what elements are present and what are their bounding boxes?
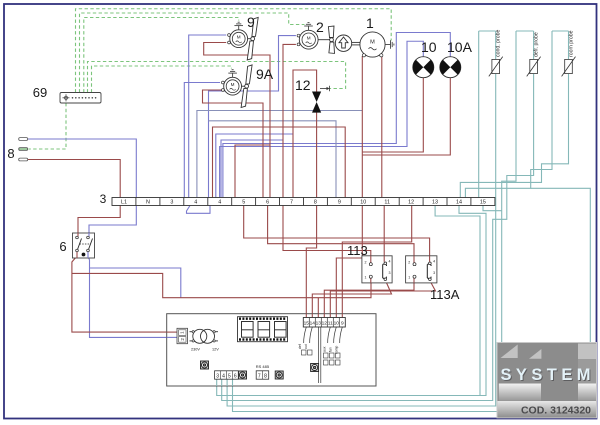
svg-text:out: out — [304, 344, 308, 349]
svg-text:def: def — [298, 344, 302, 349]
svg-text:3: 3 — [170, 200, 173, 206]
svg-text:4: 4 — [218, 200, 221, 206]
wire motor U1 to terminal 11 — [381, 56, 383, 198]
valve 12 (solenoid) — [295, 77, 330, 113]
wire terminal L1 to switch 6 — [78, 206, 120, 235]
wire stub switch out brown — [76, 252, 78, 258]
wire connector 8 to terminal N — [28, 139, 137, 198]
pin motor 2 — [297, 43, 300, 46]
wire stub conn12 brown — [167, 331, 179, 333]
svg-text:6: 6 — [266, 200, 269, 206]
control board U2 — [167, 314, 376, 386]
relay 113 — [347, 243, 392, 283]
wire defr probe to board pin 6 — [233, 31, 517, 412]
pin motor 9A — [222, 81, 225, 84]
svg-text:1: 1 — [366, 15, 374, 31]
wire stub switch in blue — [88, 233, 90, 236]
wire room probe to terminal 14 — [465, 31, 552, 198]
svg-text:9: 9 — [338, 200, 341, 206]
svg-text:4: 4 — [433, 260, 435, 264]
pin motor 1 — [362, 54, 365, 57]
wire stubs board teal — [217, 379, 233, 386]
motor U1 compressor — [360, 15, 394, 57]
wire valve 12 to terminal 8 — [316, 112, 318, 198]
svg-text:12: 12 — [322, 321, 328, 327]
svg-text:14: 14 — [310, 321, 316, 327]
svg-text:3: 3 — [433, 271, 435, 275]
connector 1-2 — [177, 328, 188, 343]
svg-text:4: 4 — [194, 200, 197, 206]
fan blade 2 — [318, 39, 330, 41]
wire terminal 4 to terminal 9 — [209, 121, 337, 198]
wire motor 9A to terminal 4 — [184, 83, 220, 198]
pin 1 relay 113 — [369, 275, 372, 278]
wire motor 2 to terminal 7 — [283, 44, 296, 197]
wire gnd 69 to motor 9A (green dashed) — [92, 66, 232, 93]
wire defr probe to board pin 4 — [222, 31, 534, 401]
svg-text:3: 3 — [100, 192, 107, 206]
svg-text:10: 10 — [360, 200, 366, 206]
motor 9A (evaporator fan) — [222, 65, 274, 108]
svg-text:6: 6 — [59, 239, 66, 254]
board relay contacts drawing — [304, 327, 343, 383]
svg-text:10A: 10A — [447, 39, 473, 55]
pin 1 relay 113A — [413, 275, 416, 278]
svg-text:RS 485: RS 485 — [256, 364, 270, 369]
relay 113A — [406, 256, 460, 302]
svg-text:10: 10 — [334, 321, 340, 327]
svg-text:6: 6 — [234, 374, 237, 380]
wire stubs board block red — [306, 314, 342, 318]
wire terminal 4 to terminal 9 branch — [213, 127, 346, 198]
wire terminal 13 loop — [435, 206, 480, 396]
svg-text:COD. 3124320: COD. 3124320 — [521, 405, 591, 417]
wire valve 12 to terminal 7 — [293, 70, 317, 198]
svg-text:230V: 230V — [191, 348, 200, 352]
wire terminal 11 to relay 113 pin 4 — [383, 206, 385, 263]
svg-text:2: 2 — [316, 19, 324, 35]
svg-text:2: 2 — [365, 261, 367, 265]
pin motor 2 — [297, 34, 300, 37]
svg-text:12V: 12V — [212, 348, 219, 352]
svg-text:12: 12 — [408, 200, 414, 206]
motor 9 (evaporator fan) — [228, 14, 259, 60]
wire terminal 12 to board pin 9 — [342, 206, 411, 318]
svg-text:15: 15 — [304, 321, 310, 327]
wire defr probe top — [516, 30, 534, 32]
pin 2 relay 113A — [413, 263, 416, 266]
switch 6 — [59, 233, 94, 258]
wire terminal 4 to valve 12 branch — [216, 134, 293, 198]
wire terminal N to switch 6 — [89, 206, 136, 235]
wire terminal 14 to board pin 3 — [217, 206, 486, 396]
connector 8 — [7, 138, 27, 161]
wire gnd 69 to motor 2 (green dashed) — [80, 13, 305, 93]
wire relay 113A pin 3 to board pin 11 — [330, 281, 435, 318]
ground motor 1 — [385, 40, 394, 49]
wire switch 6 to board terminal 2 — [88, 251, 179, 337]
wire lamp 10A to bus — [362, 78, 450, 155]
wire terminal 4 to terminal 10 bus — [197, 111, 362, 198]
pump symbol — [335, 35, 360, 51]
svg-text:11: 11 — [384, 200, 390, 206]
wire room probe to terminal 14 b — [460, 31, 568, 198]
svg-text:5: 5 — [228, 374, 231, 380]
contact relay 113A — [427, 264, 431, 279]
wire relay 113 pin 3 to board pin 14 — [312, 281, 391, 318]
wire gnd 69 to motor U1 (green dashed) — [76, 9, 392, 93]
wire motor U1 to terminal 10 — [361, 56, 363, 198]
svg-text:M: M — [370, 40, 375, 46]
svg-text:fan: fan — [329, 347, 333, 352]
contact relay 113 — [383, 264, 387, 279]
wire switch 6 to relay 113 pin 1 — [72, 273, 371, 297]
board terminal block 3-6 — [215, 371, 239, 380]
svg-text:7: 7 — [258, 374, 261, 380]
wire motor 2 to terminal 4 — [209, 36, 296, 198]
transformer T1 — [190, 329, 219, 343]
wire stub switch out blue — [87, 252, 89, 258]
wire room probe top — [552, 30, 569, 32]
wire terminal 5 branch — [235, 145, 270, 198]
wire motor 9 to terminal 6 — [204, 43, 270, 198]
wire right edge loop — [531, 188, 591, 400]
lamp 10A — [440, 39, 473, 78]
wire motor 9 to terminal 4 — [189, 35, 227, 198]
svg-text:aux: aux — [323, 346, 327, 352]
svg-text:M: M — [231, 82, 235, 87]
wire switch 6 to board branch — [90, 268, 181, 298]
svg-text:11: 11 — [328, 321, 333, 327]
wire gnd 69 to motor 9 (green dashed) — [84, 18, 239, 93]
svg-text:1: 1 — [408, 276, 410, 280]
svg-text:3: 3 — [389, 271, 391, 275]
svg-text:defr. probe: defr. probe — [533, 32, 539, 57]
connector 69 — [33, 85, 101, 103]
wire stub switch in brown — [77, 233, 79, 236]
ground motor 2 — [304, 23, 313, 31]
fan blade 9 — [248, 38, 252, 40]
wire terminal 4 to lamp 10A — [223, 33, 450, 198]
display module — [238, 317, 288, 342]
svg-text:3: 3 — [216, 374, 219, 380]
svg-text:13: 13 — [316, 321, 322, 327]
svg-text:N: N — [146, 200, 150, 206]
room probe — [562, 30, 576, 76]
terminal strip 3 — [100, 192, 495, 206]
wire terminal 7 to relay 113 pin 2 — [283, 206, 371, 264]
svg-text:7: 7 — [290, 200, 293, 206]
defr. probe — [527, 32, 541, 76]
svg-text:9: 9 — [247, 14, 255, 30]
screw terminal icons — [201, 361, 319, 379]
board terminal block 15-9 — [303, 318, 345, 328]
wire cond probe top — [479, 30, 496, 32]
svg-text:4: 4 — [389, 260, 391, 264]
wire switch 6 to board terminal 1 — [72, 251, 179, 332]
svg-text:5: 5 — [242, 200, 245, 206]
svg-text:1: 1 — [365, 276, 367, 280]
svg-text:15: 15 — [480, 200, 486, 206]
pin motor 9 — [228, 41, 231, 44]
cond. probe — [489, 29, 503, 76]
svg-text:8: 8 — [314, 200, 317, 206]
svg-text:10: 10 — [421, 39, 437, 55]
wire terminal 4 to lamp 10 — [220, 41, 424, 197]
svg-text:4: 4 — [222, 374, 225, 380]
svg-text:113A: 113A — [430, 287, 460, 302]
board terminal block 7-8 RS485 — [256, 364, 270, 380]
svg-text:2: 2 — [408, 261, 410, 265]
wire terminal 10 to board pin 10 — [336, 206, 362, 318]
svg-text:M: M — [307, 36, 311, 41]
ground motor 9 — [234, 22, 243, 30]
svg-text:L1: L1 — [121, 200, 127, 206]
wire terminal 6 to relay 113A pin 2 — [268, 206, 414, 264]
wire terminal 8 to board pin 15 — [306, 206, 316, 318]
wire stub conn12 blue — [167, 336, 179, 338]
fan blade 9A — [242, 85, 246, 87]
pin motor 1 — [380, 54, 383, 57]
wire connector 8 to terminal L1 — [28, 160, 121, 198]
pin motor 9 — [228, 34, 231, 37]
svg-text:14: 14 — [456, 200, 462, 206]
wire lamp 10 to bus — [362, 78, 423, 152]
ground motor 9A — [228, 70, 237, 78]
pin 2 relay 113 — [369, 263, 372, 266]
lamp 10 — [413, 39, 437, 78]
svg-text:113: 113 — [347, 243, 368, 258]
svg-text:M: M — [237, 35, 241, 40]
svg-text:9: 9 — [341, 321, 344, 327]
svg-text:12: 12 — [295, 77, 311, 93]
wire gnd 69 to valve 12 (green dashed) — [88, 62, 346, 93]
wire motor 9A to terminal 6 — [203, 90, 264, 198]
wire cond probe to terminal 15 — [478, 31, 480, 198]
wire relay 113A pin 1 to board pin 12 — [324, 278, 414, 318]
wire terminal 5 to relay 113A pin 4 — [244, 206, 430, 263]
motor 2 (condenser fan) — [297, 19, 334, 53]
svg-text:9A: 9A — [256, 66, 274, 82]
pin motor 9A — [222, 89, 225, 92]
wire terminal 15 loop — [483, 206, 502, 211]
wire cond probe to board pin 5 — [227, 31, 496, 406]
wire board pin 13 tee — [317, 298, 319, 318]
logo SYSTEM 4 — [497, 343, 597, 418]
svg-text:13: 13 — [432, 200, 438, 206]
wire jumper terminal 4 to 4 — [187, 206, 211, 214]
svg-text:69: 69 — [33, 85, 47, 100]
svg-text:8: 8 — [264, 374, 267, 380]
svg-text:8: 8 — [7, 146, 14, 161]
wire gnd 69 to connector 8 (green dashed) — [29, 103, 67, 149]
svg-text:room probe: room probe — [568, 30, 574, 57]
svg-text:cond. probe: cond. probe — [496, 29, 502, 57]
wire terminal 4 to motor 2 branch — [221, 140, 283, 198]
